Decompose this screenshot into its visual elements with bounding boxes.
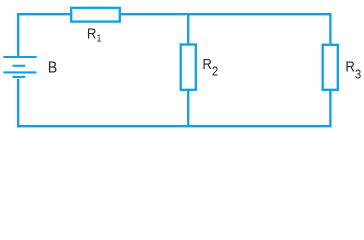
svg-text:R1: R1	[87, 24, 102, 44]
resistor R3	[323, 45, 338, 90]
wire right upper (top wire to R3)	[329, 13, 331, 45]
svg-text:B: B	[48, 60, 58, 77]
battery B (two-cell symbol)	[3, 57, 36, 77]
wire left lower (battery - lead)	[17, 79, 19, 127]
battery plate long (positive, cell 2)	[3, 71, 36, 73]
battery plate short (negative, cell 1)	[13, 65, 26, 67]
svg-text:R3: R3	[345, 58, 361, 82]
wire top (battery + node to R1, junction, R3)	[17, 13, 331, 15]
resistor R2	[181, 45, 196, 90]
wire middle branch upper (junction on top wire down to R2)	[187, 13, 189, 45]
wire left upper (battery + lead)	[17, 13, 19, 56]
svg-text:R2: R2	[202, 55, 218, 78]
resistor R1	[71, 8, 120, 22]
wire bottom (return node to battery -)	[17, 125, 331, 127]
wire middle branch lower (R2 to bottom wire)	[187, 90, 189, 127]
battery plate long (positive, cell 1)	[3, 56, 36, 58]
battery plate short (negative, cell 2)	[13, 76, 26, 78]
wire right lower (R3 to bottom wire)	[329, 90, 331, 127]
